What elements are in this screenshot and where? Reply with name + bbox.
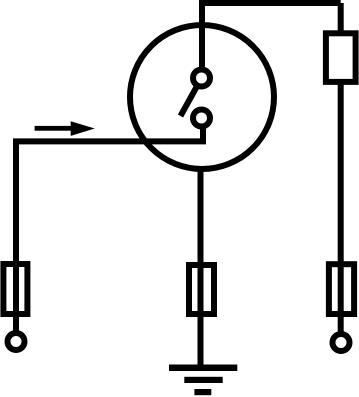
wire: top bus from switch common up and right to load branch bbox=[202, 0, 341, 78]
switch lever (open) bbox=[181, 78, 202, 116]
terminal (left) bbox=[8, 333, 25, 350]
fuse F3 (right) bbox=[329, 264, 354, 314]
wire: center branch from enclosure bottom down to ground bbox=[198, 167, 204, 368]
terminal (right) bbox=[333, 334, 350, 351]
load resistor (top right) bbox=[326, 33, 356, 82]
switch top contact bbox=[193, 70, 210, 87]
wire: right branch vertical (through load and fuse to terminal) bbox=[338, 3, 344, 333]
switch bottom contact bbox=[193, 110, 210, 127]
fuse F2 (center) bbox=[189, 265, 214, 314]
fuse F1 (left) bbox=[3, 264, 27, 314]
current direction arrow bbox=[35, 126, 73, 131]
switch enclosure bbox=[130, 25, 274, 169]
ground bbox=[169, 365, 237, 372]
wire: bottom contact stub, left horizontal run and left branch down to terminal bbox=[16, 118, 203, 342]
